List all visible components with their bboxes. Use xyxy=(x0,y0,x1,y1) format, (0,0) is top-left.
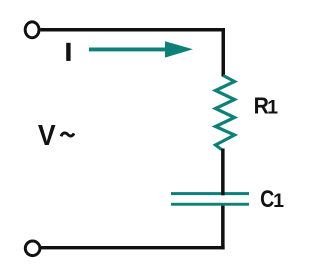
current arrow xyxy=(89,48,169,52)
terminal top-left xyxy=(25,22,39,38)
terminal bottom-left xyxy=(25,241,40,256)
wire bottom horizontal xyxy=(41,246,225,249)
tilde (AC source symbol) xyxy=(61,133,74,136)
svg-text:1: 1 xyxy=(267,97,278,119)
capacitor C1 xyxy=(171,192,249,195)
label C1 xyxy=(260,185,274,213)
wire resistor to capacitor xyxy=(221,149,225,196)
wire right vertical upper xyxy=(222,28,226,77)
resistor R1 xyxy=(216,76,235,150)
wire top horizontal xyxy=(41,28,226,32)
svg-text:V: V xyxy=(38,119,56,151)
label R1 xyxy=(254,92,269,118)
svg-text:1: 1 xyxy=(273,190,284,212)
label V (source) xyxy=(38,119,56,151)
label I (current) xyxy=(66,43,70,61)
wire capacitor to bottom xyxy=(221,203,225,249)
